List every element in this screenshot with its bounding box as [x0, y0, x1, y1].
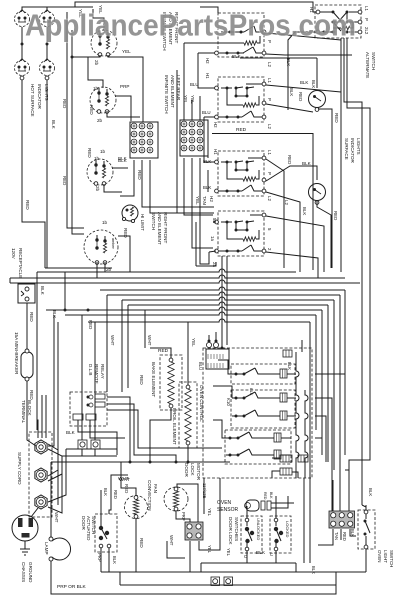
svg-text:YEL: YEL — [207, 508, 212, 517]
wire J4 feed — [94, 322, 96, 440]
wire y572 bus — [101, 541, 366, 572]
relay DLB coils — [73, 394, 105, 420]
connector 2x2 — [185, 522, 203, 540]
receptacle 120V — [18, 284, 35, 303]
door lock switch unlocked — [241, 516, 262, 553]
svg-text:BLK: BLK — [112, 556, 117, 564]
terminal SU3 right L1 — [248, 156, 266, 160]
terminal SU4 right 2 — [262, 249, 266, 253]
oven sensor — [245, 496, 295, 511]
svg-text:15A MINI-BREAKER: 15A MINI-BREAKER — [14, 332, 19, 375]
relay contacts group B — [231, 390, 295, 428]
svg-text:2b: 2b — [95, 186, 100, 192]
svg-text:SUPPLY CORD: SUPPLY CORD — [17, 452, 22, 485]
supply cord plug — [12, 515, 38, 541]
wire bus y300 — [122, 297, 334, 470]
surface indicator light DS5 — [309, 91, 326, 112]
svg-text:SENSOR: SENSOR — [217, 507, 239, 513]
wire bake leads — [150, 348, 171, 462]
svg-text:PRP OR BLK: PRP OR BLK — [57, 584, 87, 590]
svg-text:H2: H2 — [205, 58, 210, 64]
wire conn 2x2 leads — [190, 478, 220, 572]
wire DS6 leads — [317, 201, 331, 268]
svg-text:YEL: YEL — [195, 196, 200, 205]
switch SU1 top contacts — [221, 26, 266, 34]
svg-text:RED: RED — [88, 320, 93, 329]
svg-text:RED: RED — [236, 127, 247, 133]
alternate switch left terminals — [316, 10, 320, 34]
node DOOR LOCK MOTOR text — [184, 463, 201, 481]
alternate switch contacts — [320, 11, 349, 34]
relay DLB box — [70, 392, 107, 426]
wire bus y268 — [45, 267, 112, 269]
svg-text:RED: RED — [342, 532, 347, 541]
node SURFACE INDICATOR LIGHTS text — [344, 138, 361, 164]
svg-text:RED: RED — [333, 211, 338, 220]
svg-text:CHASSIS: CHASSIS — [21, 562, 26, 582]
bottom connector J1 — [211, 577, 220, 586]
svg-text:TAN: TAN — [202, 196, 207, 205]
svg-text:D.L.B: D.L.B — [88, 364, 93, 376]
svg-text:RED: RED — [139, 538, 144, 548]
wire J3 J4 stubs — [82, 449, 95, 456]
wire switch outputs to bus — [266, 33, 341, 278]
svg-text:RECEPTACLE: RECEPTACLE — [18, 248, 23, 278]
svg-text:AND ELEMENT: AND ELEMENT — [170, 75, 175, 108]
svg-text:RED: RED — [139, 375, 144, 385]
svg-text:SWITCHES: SWITCHES — [234, 517, 239, 541]
svg-text:AND ELEMENT: AND ELEMENT — [157, 212, 162, 245]
node 120V RECEPTACLE text — [11, 248, 23, 278]
svg-text:RED: RED — [62, 99, 67, 108]
wire SW-RF top feed — [93, 9, 104, 31]
wire left light down to receptacle — [22, 80, 45, 268]
svg-text:BLK: BLK — [311, 80, 316, 88]
svg-text:DOOR: DOOR — [81, 516, 86, 530]
wire vertical hop feed — [296, 352, 299, 478]
wire broil leads — [187, 322, 189, 462]
connector pin strip bottom — [280, 455, 308, 475]
connector block CB2 — [180, 120, 208, 156]
indicator light DS4 (hot surface) — [40, 59, 55, 80]
svg-text:YEL: YEL — [190, 95, 195, 104]
wire RED bus mid — [212, 134, 313, 271]
svg-text:PRP: PRP — [97, 553, 102, 562]
svg-text:SWITCH: SWITCH — [389, 550, 394, 567]
wire DLB leads right — [78, 397, 222, 462]
wire convection fan leads — [121, 462, 136, 572]
wire bus y290 — [100, 287, 345, 455]
door lock motor — [164, 487, 188, 511]
svg-text:UNLOCKED: UNLOCKED — [256, 518, 261, 540]
wire long horizontal y462 — [51, 461, 230, 464]
wire far-left pair down — [67, 12, 84, 234]
svg-text:BLK: BLK — [118, 156, 128, 161]
alternate switch box — [315, 5, 361, 38]
connector 3x2 — [329, 511, 355, 528]
svg-text:RED: RED — [123, 228, 128, 238]
svg-text:BROIL ELEMENT: BROIL ELEMENT — [172, 408, 177, 445]
surface switch box SU1 — [218, 13, 264, 57]
terminal SU4 left top — [215, 220, 219, 224]
svg-text:WHT: WHT — [147, 335, 152, 346]
svg-text:L1: L1 — [267, 150, 272, 155]
bake element — [168, 358, 174, 408]
svg-text:OVEN: OVEN — [377, 550, 382, 562]
resistor SU1 pilot — [184, 36, 260, 120]
wire bottom pin leads — [272, 458, 298, 478]
svg-text:RED: RED — [263, 492, 267, 500]
node SWITCH AND ELEMENT RIGHT FRONT text — [151, 212, 168, 245]
wire right bus C staircase — [347, 38, 370, 511]
svg-text:LOCK: LOCK — [190, 463, 195, 476]
svg-text:SURFACE: SURFACE — [344, 138, 349, 160]
wire transformer feeds — [209, 332, 222, 348]
svg-text:H2: H2 — [209, 196, 214, 202]
svg-text:1b: 1b — [102, 220, 108, 225]
svg-text:BLK: BLK — [203, 159, 211, 164]
svg-text:P: P — [364, 18, 369, 21]
wire bus y272 — [37, 269, 296, 272]
wire bus y283 — [10, 280, 360, 283]
resistor alternate switch — [333, 22, 353, 30]
svg-text:SWITCH: SWITCH — [371, 52, 376, 70]
wire cascade to right bus — [302, 322, 345, 511]
surface switch box SU2 — [215, 77, 264, 122]
svg-text:L2: L2 — [267, 124, 272, 129]
wire breaker to terminal block — [27, 381, 36, 446]
breaker 15A — [21, 349, 33, 381]
svg-text:OVEN: OVEN — [217, 500, 232, 506]
node INFINITE SWITCH AND ELEMENT LEFT REAR text — [164, 75, 181, 114]
svg-text:P: P — [267, 172, 272, 175]
node DOOR LOCK SWITCHES text — [228, 517, 239, 546]
door lock switch locked — [270, 516, 291, 553]
svg-text:RED: RED — [137, 170, 142, 180]
wire oven control hop bus — [281, 374, 296, 455]
wire SW-LR to block — [107, 96, 140, 121]
terminal SU2 right P — [262, 101, 266, 105]
svg-text:WHT: WHT — [169, 535, 174, 546]
wire bus y295 — [107, 292, 340, 513]
svg-text:RED: RED — [29, 390, 34, 400]
svg-text:1a: 1a — [210, 236, 215, 241]
oven light switch — [358, 505, 375, 572]
wire top bus — [96, 2, 316, 13]
connector pins top — [283, 350, 292, 357]
node D.L.B REMOTE RELAY text — [88, 364, 105, 384]
wire lock switch tops — [247, 496, 276, 518]
surface switch box SU3 — [215, 151, 264, 196]
svg-text:1b: 1b — [93, 86, 99, 91]
wire SW-RR right — [104, 168, 128, 192]
svg-text:BLK: BLK — [368, 488, 373, 496]
wire vertical hop feed second — [305, 390, 308, 478]
svg-text:TAN: TAN — [334, 532, 339, 540]
svg-text:BAKE ELEMENT: BAKE ELEMENT — [151, 362, 156, 397]
indicator light DS3 (hot surface) — [15, 59, 30, 80]
wire lamp bottom to bottom bus — [51, 561, 336, 594]
svg-text:DOOR LOCK: DOOR LOCK — [228, 517, 233, 546]
svg-text:120V: 120V — [11, 248, 16, 260]
svg-text:ALTERNATE: ALTERNATE — [365, 52, 370, 78]
wire DS5 top link — [240, 32, 352, 110]
svg-text:BLU: BLU — [202, 110, 211, 115]
svg-text:RED: RED — [298, 92, 303, 101]
bottom connector J2 — [224, 577, 233, 586]
wire right bus B staircase — [344, 38, 362, 505]
wire bus y305 — [128, 302, 328, 462]
svg-text:5a: 5a — [212, 218, 217, 223]
wire J3 feed — [81, 315, 83, 440]
svg-text:2L2: 2L2 — [364, 27, 369, 35]
svg-text:PRP: PRP — [181, 512, 186, 521]
oven lamp — [49, 537, 71, 561]
svg-text:L1: L1 — [267, 78, 272, 83]
wire top feed — [22, 2, 96, 11]
svg-text:2b: 2b — [94, 60, 99, 66]
broil element box — [179, 382, 197, 448]
svg-text:HI LIMIT: HI LIMIT — [140, 214, 145, 231]
svg-text:LIGHT: LIGHT — [383, 550, 388, 563]
svg-text:RED: RED — [334, 113, 339, 123]
wire terminal block fan-out — [37, 315, 117, 513]
svg-text:YEL: YEL — [122, 49, 131, 54]
node TERMINAL BLOCK text — [21, 400, 32, 424]
svg-text:1b: 1b — [100, 149, 106, 154]
wire x65 vertical — [64, 272, 66, 310]
svg-text:L2: L2 — [267, 62, 272, 67]
wire SU4 left leads — [196, 222, 216, 266]
wire SW-LF bottoms — [97, 236, 130, 278]
wire receptacle down — [26, 303, 28, 349]
svg-text:TERMINAL: TERMINAL — [21, 400, 26, 424]
svg-text:CONVECTION: CONVECTION — [147, 480, 152, 511]
svg-text:RED: RED — [113, 490, 118, 499]
terminal SU3 right L2 — [262, 189, 266, 193]
connector block CB1 — [130, 122, 158, 158]
svg-text:OVEN CONTROL: OVEN CONTROL — [199, 385, 204, 422]
svg-text:BLK: BLK — [302, 207, 307, 215]
switch SU1 bottom contacts — [215, 47, 266, 55]
svg-text:H2: H2 — [213, 122, 218, 128]
svg-text:RED: RED — [25, 200, 30, 210]
wire y585 bus — [120, 572, 336, 585]
broil element — [185, 385, 191, 445]
svg-text:RED: RED — [158, 348, 169, 354]
wire bus y322 — [88, 319, 310, 322]
infinite switch SW-LR — [90, 87, 116, 113]
wire SW-RF bottoms — [71, 55, 144, 122]
infinite switch SW-LF large — [84, 230, 118, 264]
relay contacts group C — [225, 430, 291, 464]
door actuated switch — [95, 514, 117, 572]
svg-text:RED: RED — [87, 148, 92, 158]
svg-text:RED: RED — [89, 105, 94, 115]
svg-text:L2: L2 — [284, 200, 289, 205]
chassis ground symbol — [20, 541, 30, 555]
infinite switch SW-RF — [91, 30, 117, 56]
wire left long vertical — [176, 70, 178, 213]
svg-text:PRP: PRP — [120, 84, 129, 89]
terminal SU2 right L2 — [262, 115, 266, 119]
wire supply verticals upper — [42, 395, 62, 474]
relay contacts group A — [231, 364, 295, 384]
indicator light DS2 (hot surface) — [40, 10, 55, 27]
svg-text:RED: RED — [287, 155, 292, 164]
wire relay feed verticals — [213, 360, 236, 438]
svg-text:SWITCH: SWITCH — [151, 212, 156, 230]
svg-text:INDICATOR: INDICATOR — [37, 84, 42, 110]
svg-text:INDICATOR: INDICATOR — [350, 138, 355, 164]
wire bus y310 — [46, 307, 322, 455]
svg-text:GROUND: GROUND — [28, 562, 33, 583]
node OVEN SENSOR text — [217, 500, 239, 513]
wire left feed column — [196, 120, 208, 266]
svg-text:BLK: BLK — [203, 185, 211, 190]
svg-text:2b: 2b — [97, 118, 103, 123]
wire oven light feed — [362, 505, 366, 510]
svg-text:DOOR: DOOR — [184, 463, 189, 477]
svg-text:BLOCK: BLOCK — [27, 400, 32, 417]
convection fan — [125, 496, 148, 519]
terminal block — [29, 432, 52, 517]
svg-text:BLU: BLU — [198, 362, 203, 370]
svg-text:HOT SURFACE: HOT SURFACE — [30, 84, 35, 117]
svg-text:BLK: BLK — [287, 362, 292, 370]
svg-text:BLK: BLK — [300, 80, 308, 85]
connector square J3 — [78, 440, 87, 449]
svg-text:BLK: BLK — [232, 54, 242, 59]
terminal SU2 left top — [198, 53, 218, 90]
svg-text:INFINITE SWITCH: INFINITE SWITCH — [164, 75, 169, 114]
svg-text:H1: H1 — [205, 73, 210, 79]
node DOOR ACTUATED SWITCH text — [81, 516, 96, 541]
svg-text:FAN: FAN — [153, 484, 158, 493]
svg-text:H1: H1 — [213, 149, 218, 155]
hi-limit thermostat — [122, 205, 138, 223]
svg-text:BLK: BLK — [52, 310, 57, 318]
svg-text:BLK: BLK — [311, 566, 316, 574]
infinite switch SW-RR — [87, 159, 113, 185]
svg-text:BLK: BLK — [51, 120, 56, 130]
wire plug to block — [31, 508, 38, 517]
svg-text:RIGHT FRONT: RIGHT FRONT — [163, 212, 168, 243]
wire right bus A — [340, 38, 342, 272]
svg-text:BLK: BLK — [40, 286, 45, 296]
svg-text:BLK: BLK — [103, 488, 108, 496]
wire door switch feeds — [101, 475, 128, 514]
svg-text:YEL: YEL — [226, 548, 231, 557]
svg-text:AppliancePartsPros.com: AppliancePartsPros.com — [25, 9, 356, 43]
connector square J4 — [91, 440, 100, 449]
svg-text:BLK: BLK — [269, 492, 273, 499]
terminal SU3 right P — [262, 178, 266, 182]
clock transformer — [206, 340, 229, 370]
svg-text:BLK: BLK — [249, 388, 254, 396]
wire lock switch bottoms — [201, 551, 296, 572]
svg-text:BLU: BLU — [190, 82, 199, 87]
svg-text:BLK: BLK — [302, 161, 312, 166]
wire DS5 leads — [317, 58, 332, 268]
svg-text:1b: 1b — [94, 156, 100, 161]
svg-text:ACTUATED: ACTUATED — [86, 516, 91, 541]
oven control box outline — [203, 348, 312, 478]
svg-text:LOCKED: LOCKED — [285, 521, 290, 538]
alternate switch right terminals — [349, 10, 362, 34]
svg-text:BLK: BLK — [256, 550, 266, 556]
bake element box — [160, 355, 182, 410]
svg-text:RELAY: RELAY — [100, 364, 105, 379]
svg-text:K10: K10 — [226, 398, 231, 406]
svg-text:WHT: WHT — [54, 512, 59, 523]
wire conn 3x2 leads — [318, 470, 356, 545]
svg-text:C: C — [270, 552, 273, 557]
node OVEN LIGHT SWITCH text — [377, 550, 394, 567]
wire hop verticals — [222, 256, 227, 345]
svg-text:YEL: YEL — [207, 545, 212, 554]
surface indicator light DS6 — [309, 184, 326, 205]
wire BLK vertical left — [36, 272, 38, 430]
svg-text:L2: L2 — [267, 196, 272, 201]
svg-text:LAMP: LAMP — [44, 542, 49, 555]
node lights text — [30, 84, 49, 117]
wire lights junctions — [21, 27, 49, 60]
svg-text:LIGHTS: LIGHTS — [356, 138, 361, 155]
terminal SU4 right 5 — [250, 213, 266, 217]
wire lamp top WHT — [50, 462, 52, 537]
svg-text:WHT: WHT — [119, 477, 130, 483]
svg-text:MOTOR: MOTOR — [196, 463, 201, 481]
svg-text:BLK: BLK — [289, 88, 294, 96]
svg-text:BLK: BLK — [286, 58, 291, 66]
wire cascade verticals bottom — [304, 420, 310, 563]
svg-text:RED: RED — [62, 176, 67, 185]
node INFINITE SWITCH AND ELEMENT RIGHT FRONT text — [162, 12, 179, 51]
svg-text:amber: amber — [111, 238, 115, 249]
node CONVECTION FAN text — [147, 480, 158, 511]
surface switch box SU4 — [215, 211, 264, 256]
wire CB1 leads — [120, 160, 214, 213]
wire CB2 bottom leads — [184, 158, 213, 264]
wire SW-LR top feed — [88, 57, 103, 88]
svg-text:WHT: WHT — [110, 335, 115, 346]
svg-text:RED: RED — [124, 484, 129, 493]
wire wht vertical2 — [144, 310, 146, 348]
svg-text:BLK: BLK — [66, 430, 76, 435]
svg-text:P: P — [267, 98, 272, 101]
svg-text:L1: L1 — [364, 6, 369, 11]
indicator light DS1 (hot surface) — [15, 10, 30, 27]
svg-text:RED: RED — [29, 312, 34, 322]
wire CB2 top leads — [192, 96, 200, 120]
wire right light down — [46, 80, 48, 268]
wire WHT long vertical — [106, 295, 108, 392]
terminal SU2 right L1 — [246, 82, 266, 86]
wire door lock motor leads — [176, 484, 198, 522]
svg-text:YEL: YEL — [191, 338, 196, 347]
wire bus y278 — [10, 275, 345, 283]
node CHASSIS GROUND text — [21, 562, 33, 583]
node ALTERNATE SWITCH text — [365, 52, 376, 78]
wire bus y315 — [65, 312, 316, 430]
wire left verticals mid — [122, 300, 128, 392]
terminal SU3 left — [204, 117, 218, 164]
